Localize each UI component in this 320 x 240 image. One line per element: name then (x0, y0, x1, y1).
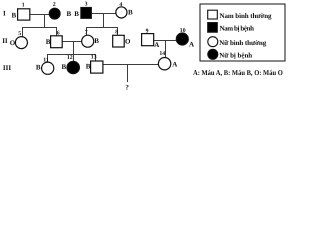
svg-text:1: 1 (22, 2, 25, 8)
svg-text:III: III (3, 64, 11, 72)
svg-text:B: B (46, 38, 51, 46)
svg-text:A: A (172, 60, 177, 68)
svg-text:A: Máu A, B: Máu B, O: Máu O: A: Máu A, B: Máu B, O: Máu O (193, 68, 283, 77)
svg-text:II: II (2, 37, 8, 45)
svg-text:I: I (3, 10, 6, 18)
svg-text:2: 2 (53, 2, 56, 8)
svg-text:10: 10 (180, 28, 186, 34)
svg-text:B: B (36, 64, 41, 72)
svg-text:11: 11 (43, 57, 49, 63)
svg-text:8: 8 (115, 29, 118, 35)
svg-text:12: 12 (67, 55, 73, 61)
svg-text:B: B (67, 10, 72, 18)
svg-text:B: B (94, 37, 99, 45)
svg-text:7: 7 (85, 30, 88, 36)
svg-text:A: A (189, 41, 194, 49)
svg-text:O: O (125, 38, 131, 46)
svg-text:B: B (74, 10, 79, 18)
svg-text:B: B (128, 9, 133, 17)
svg-text:13: 13 (91, 55, 97, 61)
svg-text:4: 4 (119, 2, 122, 8)
svg-text:9: 9 (146, 28, 149, 34)
svg-text:3: 3 (85, 1, 88, 7)
svg-text:5: 5 (18, 31, 21, 37)
svg-text:14: 14 (159, 51, 165, 57)
svg-text:Nữ bị bệnh: Nữ bị bệnh (219, 51, 252, 59)
svg-text:B: B (62, 63, 67, 71)
svg-text:Nam bị bệnh: Nam bị bệnh (220, 24, 255, 32)
svg-text:Nam bình thường: Nam bình thường (220, 12, 273, 20)
svg-text:O: O (10, 39, 16, 47)
svg-text:B: B (86, 63, 91, 71)
svg-text:6: 6 (57, 30, 60, 36)
svg-text:B: B (12, 11, 17, 19)
svg-text:?: ? (125, 84, 129, 92)
svg-text:Nữ bình thường: Nữ bình thường (219, 39, 267, 47)
svg-text:A: A (154, 41, 159, 49)
